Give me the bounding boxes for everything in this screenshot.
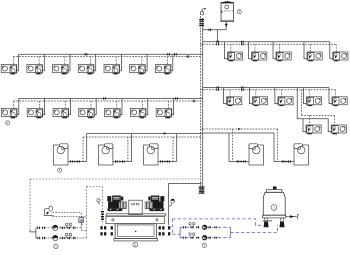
label 4	[202, 243, 206, 247]
feeder F4 riser dashed	[232, 129, 234, 162]
grease pump line B	[36, 237, 87, 239]
coupling on tank pipe	[209, 29, 211, 32]
monitor box top	[87, 186, 103, 188]
feeder F5 inlet pipe	[274, 161, 294, 163]
pump suction manifold	[35, 228, 37, 238]
grease pump line A	[36, 227, 81, 229]
row R2 monitor risers	[230, 90, 335, 98]
row R1 couplings	[217, 41, 219, 43]
feeder F2 riser solid	[131, 134, 133, 162]
row L2 couplings	[104, 97, 106, 100]
reservoir tank T1	[221, 1, 234, 21]
blue ladder left	[179, 227, 181, 237]
relief valve drop	[80, 223, 82, 228]
row R2 lubricator 5	[332, 97, 347, 106]
hand pump HP1	[44, 206, 54, 215]
blue transfer line A	[180, 226, 230, 228]
feeder F5 couplings	[282, 160, 284, 162]
mid-left supply collector (solid)	[87, 133, 203, 135]
mid-left monitor collector (dashed)	[83, 136, 201, 138]
feeder box F2	[98, 144, 113, 165]
label 1 drum	[271, 205, 277, 211]
pump motor M1	[107, 196, 127, 212]
row L1 lubricator 3	[53, 65, 69, 75]
hand pump line upper	[52, 213, 81, 218]
feeder F3 riser solid	[176, 134, 178, 162]
drum outlet	[286, 215, 300, 220]
relief valve RV1	[79, 218, 84, 226]
row R2 feed risers	[224, 88, 332, 104]
feeder box F5	[294, 144, 309, 165]
pipe bus to station	[169, 182, 202, 184]
row L1 couplings	[85, 53, 87, 56]
port fittings stack	[101, 211, 104, 220]
station riser pipe	[168, 183, 170, 225]
row R1 lubricator 1	[228, 52, 243, 61]
row R1 lubricator 3	[276, 52, 291, 61]
feeder F4 riser solid	[228, 133, 230, 162]
row R2 couplings	[217, 86, 219, 88]
feeder F2 couplings	[116, 160, 118, 162]
manifold block	[129, 200, 142, 214]
flow arrow on collector	[164, 132, 167, 134]
tank outlet pipe	[225, 22, 228, 30]
blue drum suction	[230, 225, 277, 233]
blue transfer line B	[180, 237, 230, 239]
row L1 lubricator 4	[78, 65, 94, 75]
feeder F2 riser dashed	[127, 137, 129, 162]
row L2 feed risers	[17, 99, 174, 115]
hand pump line lower	[52, 215, 86, 217]
row L1 supply header (solid)	[19, 53, 203, 55]
row L1 monitor header (dashed)	[13, 56, 200, 58]
row R2 monitor header (dashed)	[201, 89, 336, 91]
row R1 feed risers	[225, 42, 333, 59]
enclosure boundary left	[29, 179, 31, 230]
label 1 station	[133, 242, 138, 247]
feeder F5 riser solid	[273, 133, 275, 162]
row R1 supply header (solid)	[203, 41, 330, 43]
row R1 lubricator 5	[333, 52, 348, 61]
row L1 lubricator 1	[1, 65, 17, 75]
blue return riser	[171, 219, 173, 234]
row L1 lubricator 2	[27, 65, 43, 75]
label 1 pumps	[54, 244, 58, 248]
level switch LS1	[97, 199, 100, 204]
enclosure boundary top	[30, 178, 201, 180]
mid-right monitor line (dashed)	[201, 128, 278, 130]
label 7	[237, 10, 241, 14]
blue line to drum	[172, 219, 262, 225]
row R3 supply header (solid)	[297, 118, 328, 120]
row L1 lubricator 6	[130, 65, 146, 75]
svg-text:7: 7	[239, 10, 241, 14]
row R3 lubricator 1	[306, 125, 321, 134]
row R2 lubricator 2	[252, 97, 267, 106]
skid frame	[106, 214, 166, 216]
row R3 monitor risers	[309, 116, 334, 126]
row L1 monitor risers	[13, 57, 167, 66]
pipe tank to main bus	[203, 29, 227, 31]
row L1 feed risers	[17, 54, 173, 70]
label 5	[58, 168, 62, 172]
left outlet ports	[100, 226, 113, 235]
row L2 lubricator 6	[130, 108, 146, 118]
row L1 lubricator 7	[155, 65, 171, 75]
row L2 lubricator 1	[1, 108, 17, 118]
row L1 lubricator 5	[104, 65, 120, 75]
row L2 lubricator 7	[156, 108, 172, 118]
feeder F5 riser dashed	[277, 129, 279, 162]
row L2 lubricator 2	[27, 108, 43, 118]
main supply bus (solid)	[202, 18, 204, 193]
feeder F3 riser dashed	[172, 137, 174, 162]
right outlet ports	[159, 226, 171, 235]
suction elbow	[30, 230, 36, 232]
down pipe to row R1 bus	[216, 30, 218, 42]
main monitoring bus (dashed)	[200, 16, 202, 193]
blue suction link	[172, 233, 180, 235]
label 8	[6, 121, 10, 125]
row R1 monitor header (dashed)	[201, 43, 337, 45]
feeder F1 couplings	[71, 160, 73, 162]
bus couplings top	[199, 19, 204, 26]
feeder F4 couplings	[237, 160, 239, 162]
row R3 feed drop (solid)	[296, 88, 298, 119]
feeder F2 outlet pipe	[113, 161, 132, 163]
line A-B junction	[81, 228, 86, 231]
svg-text:1: 1	[273, 206, 275, 210]
feeder F4 inlet pipe	[229, 161, 249, 163]
feeder F3 outlet pipe	[158, 161, 177, 163]
mid-right supply line (solid)	[203, 132, 274, 134]
row R3 monitor drop (dashed)	[300, 90, 302, 116]
row L2 supply header (solid)	[19, 98, 203, 100]
monitor box right edge	[101, 187, 103, 225]
row R2 lubricator 1	[227, 97, 242, 106]
row R1 lubricator 2	[252, 52, 267, 61]
row R1 lubricator 4	[307, 52, 322, 61]
pump motor M2	[145, 196, 165, 212]
row L2 monitor risers	[14, 101, 169, 110]
row R3 feed risers	[303, 119, 331, 132]
row L2 lubricator 4	[79, 108, 95, 118]
row L2 lubricator 5	[105, 108, 121, 118]
feeder box F3	[144, 144, 159, 165]
row L2 monitor header (dashed)	[14, 100, 201, 102]
blue ladder right	[229, 227, 231, 237]
feeder F1 riser dashed	[82, 137, 84, 162]
svg-text:1: 1	[134, 243, 136, 247]
row R2 lubricator 4	[306, 97, 321, 106]
pressure gauge PG1	[169, 199, 175, 206]
row R2 lubricator 3	[278, 97, 293, 106]
breather fitting at bus top	[200, 8, 206, 15]
feeder F1 riser solid	[86, 134, 88, 162]
row R3 lubricator 2	[331, 125, 346, 134]
grease drum D1	[263, 186, 286, 227]
flow arrow mid-right	[238, 128, 241, 130]
row R2 supply header (solid)	[203, 87, 329, 89]
row R3 monitor header (dashed)	[301, 115, 334, 117]
monitor box left edge	[86, 187, 88, 239]
row L2 lubricator 3	[53, 108, 69, 118]
feeder F1 outlet pipe	[68, 161, 87, 163]
row R1 monitor risers	[231, 44, 336, 53]
reservoir R1	[114, 224, 157, 241]
bus couplings bottom	[199, 186, 205, 193]
feeder box F4	[249, 144, 264, 165]
feeder F3 couplings	[161, 160, 163, 162]
reservoir top plate	[106, 216, 164, 223]
feeder box F1	[54, 144, 69, 165]
